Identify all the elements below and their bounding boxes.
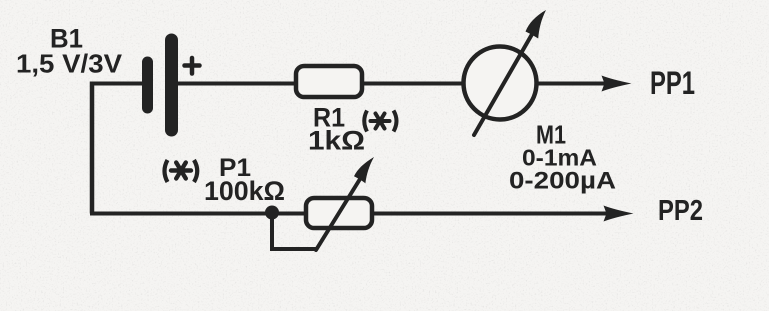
label asterisk note for P1 — [165, 160, 198, 182]
potentiometer P1 body — [306, 198, 372, 228]
meter M1 needle arrow — [474, 10, 546, 135]
node junction dot — [265, 206, 279, 220]
wire potentiometer to PP2 arrow — [372, 212, 608, 216]
terminal arrow PP2 — [604, 206, 634, 222]
wire battery to resistor R1 — [176, 82, 296, 86]
resistor R1 body — [296, 66, 362, 97]
svg-text:PP2: PP2 — [658, 195, 703, 227]
potentiometer P1 wiper arrow — [316, 157, 374, 250]
wire bottom horizontal from corner to potentiometer — [90, 212, 304, 216]
terminal arrow PP1 — [602, 76, 632, 92]
svg-text:0-200µA: 0-200µA — [509, 168, 616, 195]
wire top-left horizontal from corner to battery — [90, 82, 142, 86]
battery polarity + sign — [185, 58, 200, 74]
svg-text:PP1: PP1 — [650, 65, 695, 101]
battery B1 positive plate — [165, 40, 178, 130]
meter M1 body — [464, 47, 537, 120]
wire wiper connection from junction dot — [272, 213, 316, 249]
svg-text:100kΩ: 100kΩ — [204, 176, 285, 206]
battery B1 negative plate — [142, 62, 153, 108]
svg-text:1kΩ: 1kΩ — [308, 126, 365, 156]
wire resistor R1 to meter M1 — [362, 82, 464, 86]
svg-text:1,5 V/3V: 1,5 V/3V — [16, 49, 123, 79]
wire left vertical — [90, 82, 95, 214]
wire meter M1 to PP1 arrow — [536, 82, 606, 86]
label asterisk note for R1 — [364, 111, 396, 132]
